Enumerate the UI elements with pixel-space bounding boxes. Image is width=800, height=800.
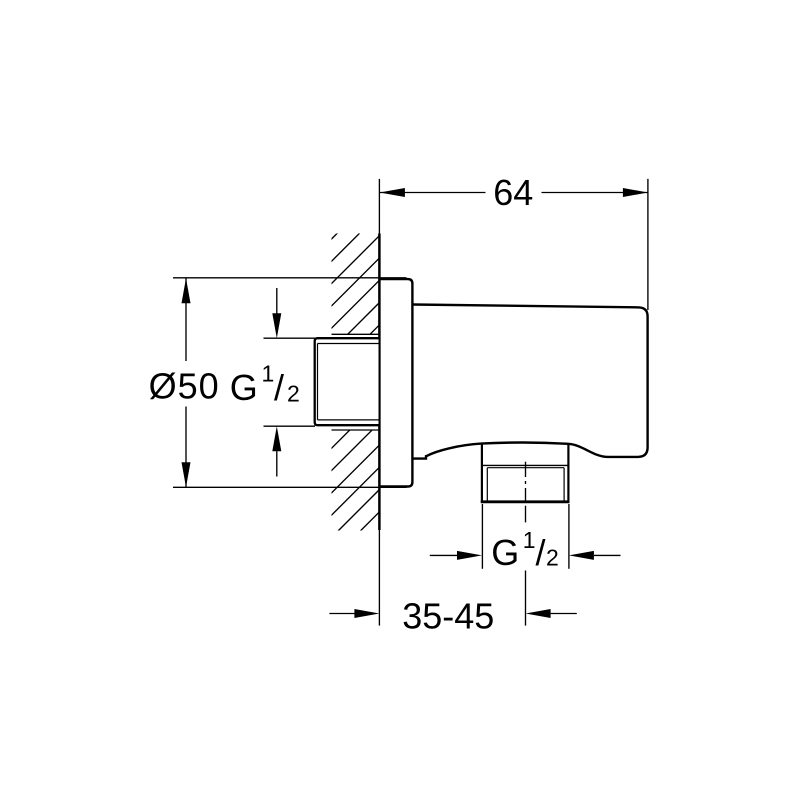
- outlet nipple sides: [481, 443, 483, 503]
- wall hole bottom edge: [332, 429, 379, 431]
- svg-text:1: 1: [523, 527, 536, 553]
- arrowhead 35-45 right: [526, 609, 551, 618]
- svg-text:2: 2: [546, 545, 559, 571]
- svg-text:35-45: 35-45: [402, 596, 494, 637]
- arrowhead diameter bottom: [182, 462, 191, 487]
- nut bottom: [481, 500, 570, 503]
- arrowhead 64 left: [380, 188, 405, 197]
- svg-text:G: G: [491, 532, 519, 573]
- wall face line: [378, 179, 380, 234]
- svg-text:Ø50: Ø50: [149, 366, 220, 407]
- nut top line: [481, 464, 569, 466]
- body outline: [412, 305, 647, 459]
- nut chamfer: [487, 468, 564, 501]
- arrowhead outlet thread right: [569, 551, 594, 560]
- value label G 1/2 wall thread: [230, 361, 300, 409]
- svg-text:/: /: [274, 367, 284, 408]
- svg-text:/: /: [536, 532, 546, 573]
- thread chamfer lines: [318, 344, 379, 420]
- arrowhead outlet thread left: [457, 551, 482, 560]
- flange: [379, 279, 412, 486]
- arrowhead 64 right: [623, 188, 648, 197]
- arrowhead thread top: [272, 313, 281, 338]
- svg-text:64: 64: [493, 172, 533, 213]
- svg-text:1: 1: [262, 361, 275, 387]
- center line of outlet (dashed): [525, 462, 527, 523]
- thread block G1/2 wall side: [315, 338, 379, 425]
- arrowhead thread bottom: [272, 426, 281, 451]
- arrowhead 35-45 left: [354, 609, 379, 618]
- svg-text:2: 2: [287, 381, 300, 407]
- wall hole top edge: [332, 333, 379, 335]
- svg-text:G: G: [230, 367, 258, 408]
- wall hatching: [331, 192, 379, 561]
- arrowhead diameter top: [182, 278, 191, 303]
- value label G 1/2 outlet thread: [491, 527, 558, 573]
